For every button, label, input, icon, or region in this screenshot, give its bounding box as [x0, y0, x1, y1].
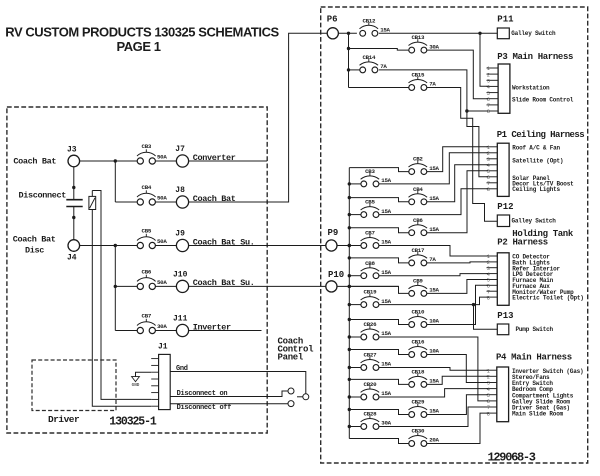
svg-text:Workstation: Workstation	[512, 85, 550, 92]
svg-text:7A: 7A	[380, 63, 387, 70]
svg-text:50A: 50A	[157, 238, 167, 245]
svg-text:P13: P13	[497, 311, 513, 321]
svg-text:Driver: Driver	[48, 414, 80, 425]
svg-text:15A: 15A	[429, 195, 439, 202]
svg-text:15A: 15A	[381, 361, 391, 368]
svg-text:15A: 15A	[429, 408, 439, 415]
svg-text:15A: 15A	[381, 390, 391, 397]
svg-text:30A: 30A	[157, 323, 167, 330]
svg-text:15A: 15A	[429, 287, 439, 294]
svg-text:P6: P6	[327, 15, 338, 25]
svg-text:3: 3	[487, 381, 490, 387]
svg-text:P10: P10	[328, 270, 344, 280]
svg-text:8: 8	[487, 295, 490, 301]
svg-text:3: 3	[487, 79, 490, 85]
svg-text:Pump Switch: Pump Switch	[516, 326, 554, 333]
svg-text:J8: J8	[175, 186, 185, 195]
svg-text:J9: J9	[175, 230, 185, 239]
svg-text:1: 1	[487, 368, 490, 374]
svg-text:6: 6	[487, 399, 490, 405]
svg-text:Coach Bat: Coach Bat	[13, 157, 56, 167]
svg-text:Ceiling Lights: Ceiling Lights	[512, 186, 560, 193]
svg-text:Disconnect: Disconnect	[19, 191, 67, 201]
svg-text:P3 Main Harness: P3 Main Harness	[497, 52, 573, 62]
svg-text:CB3: CB3	[142, 143, 152, 150]
svg-text:5: 5	[487, 393, 490, 399]
svg-text:15A: 15A	[381, 330, 391, 337]
svg-text:CB13: CB13	[411, 34, 425, 41]
svg-text:P2 Harness: P2 Harness	[497, 238, 548, 248]
svg-text:Disconnect off: Disconnect off	[177, 404, 232, 412]
svg-text:Disc: Disc	[25, 246, 44, 256]
svg-text:6: 6	[487, 97, 490, 103]
svg-text:Main Slide Room: Main Slide Room	[512, 411, 564, 418]
svg-text:1: 1	[487, 66, 490, 72]
svg-text:CB6: CB6	[142, 268, 152, 275]
svg-text:30A: 30A	[381, 420, 391, 427]
svg-text:Electric Toilet (Opt): Electric Toilet (Opt)	[512, 295, 583, 302]
svg-text:4: 4	[487, 85, 490, 91]
svg-text:7: 7	[487, 103, 490, 109]
svg-text:8: 8	[487, 411, 490, 417]
svg-text:GND: GND	[132, 383, 140, 388]
svg-text:CB19: CB19	[364, 289, 378, 296]
svg-text:7A: 7A	[429, 81, 436, 88]
svg-text:Roof A/C & Fan: Roof A/C & Fan	[512, 145, 560, 152]
svg-text:P4 Main Harness: P4 Main Harness	[496, 352, 572, 362]
svg-text:CB3: CB3	[365, 168, 375, 175]
svg-text:8: 8	[487, 187, 490, 193]
svg-text:7: 7	[487, 405, 490, 411]
svg-text:CB26: CB26	[364, 321, 378, 328]
svg-text:50A: 50A	[157, 154, 167, 161]
svg-text:15A: 15A	[381, 208, 391, 215]
svg-text:15A: 15A	[429, 378, 439, 385]
svg-text:7A: 7A	[429, 256, 436, 263]
svg-text:15A: 15A	[381, 177, 391, 184]
svg-text:8: 8	[487, 109, 490, 115]
svg-text:50A: 50A	[157, 279, 167, 286]
svg-text:CB20: CB20	[364, 381, 378, 388]
svg-text:CB15: CB15	[411, 72, 425, 79]
svg-text:CB5: CB5	[365, 199, 375, 206]
svg-text:50A: 50A	[157, 195, 167, 202]
svg-text:15A: 15A	[381, 269, 391, 276]
svg-text:J7: J7	[175, 145, 185, 154]
svg-text:4: 4	[487, 387, 490, 393]
svg-text:20A: 20A	[429, 437, 439, 444]
svg-text:RV CUSTOM PRODUCTS 130325 SCHE: RV CUSTOM PRODUCTS 130325 SCHEMATICS	[5, 25, 279, 40]
svg-text:10A: 10A	[429, 318, 439, 325]
svg-text:J11: J11	[173, 315, 188, 324]
svg-text:J10: J10	[173, 270, 188, 279]
svg-text:CB2: CB2	[413, 156, 423, 163]
svg-text:CB4: CB4	[142, 184, 152, 191]
svg-text:15A: 15A	[380, 27, 390, 34]
svg-text:CB12: CB12	[362, 17, 376, 24]
svg-text:CB30: CB30	[411, 428, 425, 435]
svg-text:CB17: CB17	[411, 247, 425, 254]
svg-text:10A: 10A	[429, 348, 439, 355]
svg-text:30A: 30A	[429, 43, 439, 50]
svg-text:129068-3: 129068-3	[488, 450, 536, 464]
svg-text:Satellite (Opt): Satellite (Opt)	[512, 157, 563, 164]
svg-text:CB9: CB9	[413, 278, 423, 285]
svg-text:2: 2	[487, 375, 490, 381]
svg-text:CB29: CB29	[411, 399, 425, 406]
svg-text:CB6: CB6	[413, 217, 423, 224]
svg-text:15A: 15A	[429, 165, 439, 172]
svg-text:CB5: CB5	[142, 228, 152, 235]
svg-text:P9: P9	[328, 228, 339, 238]
svg-text:15A: 15A	[381, 298, 391, 305]
svg-text:Slide Room Control: Slide Room Control	[512, 97, 574, 104]
svg-text:CB7: CB7	[142, 313, 152, 320]
svg-text:CB7: CB7	[365, 230, 375, 237]
svg-text:15A: 15A	[381, 239, 391, 246]
svg-text:CB14: CB14	[362, 54, 376, 61]
svg-text:Coach Bat: Coach Bat	[13, 235, 56, 245]
svg-text:CB8: CB8	[365, 260, 375, 267]
svg-text:CB4: CB4	[413, 186, 423, 193]
svg-text:Panel: Panel	[278, 352, 304, 362]
svg-text:CB28: CB28	[364, 411, 378, 418]
svg-text:CB10: CB10	[411, 309, 425, 316]
svg-text:CB18: CB18	[411, 369, 425, 376]
svg-text:CB27: CB27	[364, 352, 378, 359]
svg-text:J3: J3	[67, 145, 77, 154]
svg-text:J4: J4	[67, 254, 77, 263]
svg-text:P12: P12	[497, 202, 513, 212]
svg-text:P11: P11	[497, 15, 514, 25]
svg-text:130325-1: 130325-1	[109, 416, 157, 429]
svg-text:2: 2	[487, 72, 490, 78]
svg-text:5: 5	[487, 91, 490, 97]
svg-text:15A: 15A	[429, 226, 439, 233]
svg-text:J1: J1	[158, 343, 168, 352]
svg-text:PAGE 1: PAGE 1	[116, 39, 160, 54]
svg-text:CB16: CB16	[411, 339, 425, 346]
svg-text:Galley Switch: Galley Switch	[511, 30, 556, 37]
svg-text:P1 Ceiling Harness: P1 Ceiling Harness	[497, 130, 584, 140]
svg-text:Galley Switch: Galley Switch	[512, 218, 557, 225]
